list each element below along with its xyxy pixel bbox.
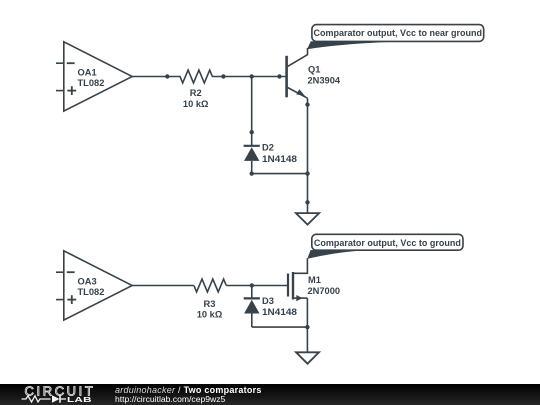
junction node at D3 branch [250,283,254,287]
op-amp OA3 [56,251,132,320]
wire OA3 output to R3 [132,285,194,287]
node dot at Q1 base terminal [277,74,281,78]
svg-text:Comparator output, Vcc to grou: Comparator output, Vcc to ground [314,238,461,248]
node dot at D2 anode [250,171,254,175]
svg-text:M1: M1 [308,275,321,285]
svg-text:1N4148: 1N4148 [262,307,297,317]
node dot at Q1 emitter terminal [305,102,309,106]
callout box: Comparator output, Vcc to near ground [312,25,484,42]
wire M1 source down to ground [306,298,308,352]
CircuitLab logo squiggle (resistor + diode) [22,395,67,402]
svg-text:10 kΩ: 10 kΩ [197,309,223,319]
node dot at R2 left terminal [165,74,169,78]
resistor R3 [194,279,226,292]
transistor Q1 [287,48,308,98]
wire Q1 emitter down to ground [307,98,309,213]
svg-text:R2: R2 [190,88,202,98]
op-amp OA1 [56,42,132,111]
svg-text:2N7000: 2N7000 [308,286,341,296]
junction node on source line [305,325,309,329]
wire D2 anode to emitter line [252,173,308,175]
callout balloon tail (bottom) [307,250,369,259]
svg-text:OA3: OA3 [78,276,97,286]
svg-text:OA1: OA1 [78,67,97,77]
resistor R2 [167,70,223,83]
junction node at D2 branch [250,74,254,78]
svg-text:2N3904: 2N3904 [308,76,341,86]
diode D2 [244,132,260,173]
svg-text:Comparator output, Vcc to near: Comparator output, Vcc to near ground [314,28,483,38]
callout box: Comparator output, Vcc to ground [312,234,463,250]
footer bar [0,384,540,405]
svg-text:Q1: Q1 [308,65,320,75]
callout balloon tail (top) [307,41,407,49]
svg-text:D2: D2 [262,142,274,152]
wire R2 to Q1 base [223,76,286,78]
svg-text:10 kΩ: 10 kΩ [183,99,209,109]
svg-text:R3: R3 [204,299,216,309]
wire D3 anode to source line [252,326,308,328]
wire R3 to M1 gate [226,285,288,287]
svg-text:1N4148: 1N4148 [262,154,297,164]
svg-text:LAB: LAB [67,396,92,404]
node dot at R2 right terminal [221,74,225,78]
node dot at ground terminal [305,200,309,204]
MOSFET M1 [288,258,307,301]
wire down to D2 [251,77,253,133]
svg-text:http://circuitlab.com/cep9wz5: http://circuitlab.com/cep9wz5 [115,394,226,404]
node dot at D2 cathode terminal [250,130,254,134]
ground (bottom circuit) [296,352,319,363]
diode D3 [244,286,260,328]
CircuitLab logo LAB [67,396,92,404]
svg-text:D3: D3 [262,296,274,306]
ground (top circuit) [296,213,319,225]
junction node on emitter line [305,171,309,175]
wire OA1 output to R2 [132,76,167,78]
svg-text:TL082: TL082 [78,78,105,88]
svg-text:TL082: TL082 [78,287,105,297]
